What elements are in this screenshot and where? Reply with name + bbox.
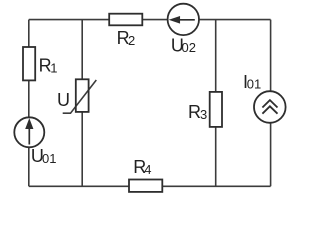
svg-text:1: 1 [50,61,57,76]
svg-text:02: 02 [182,40,196,55]
svg-text:4: 4 [144,162,151,177]
svg-text:3: 3 [200,107,207,122]
svg-text:01: 01 [247,77,261,92]
svg-text:01: 01 [42,151,56,166]
svg-text:U: U [57,90,70,110]
svg-text:2: 2 [128,33,135,48]
